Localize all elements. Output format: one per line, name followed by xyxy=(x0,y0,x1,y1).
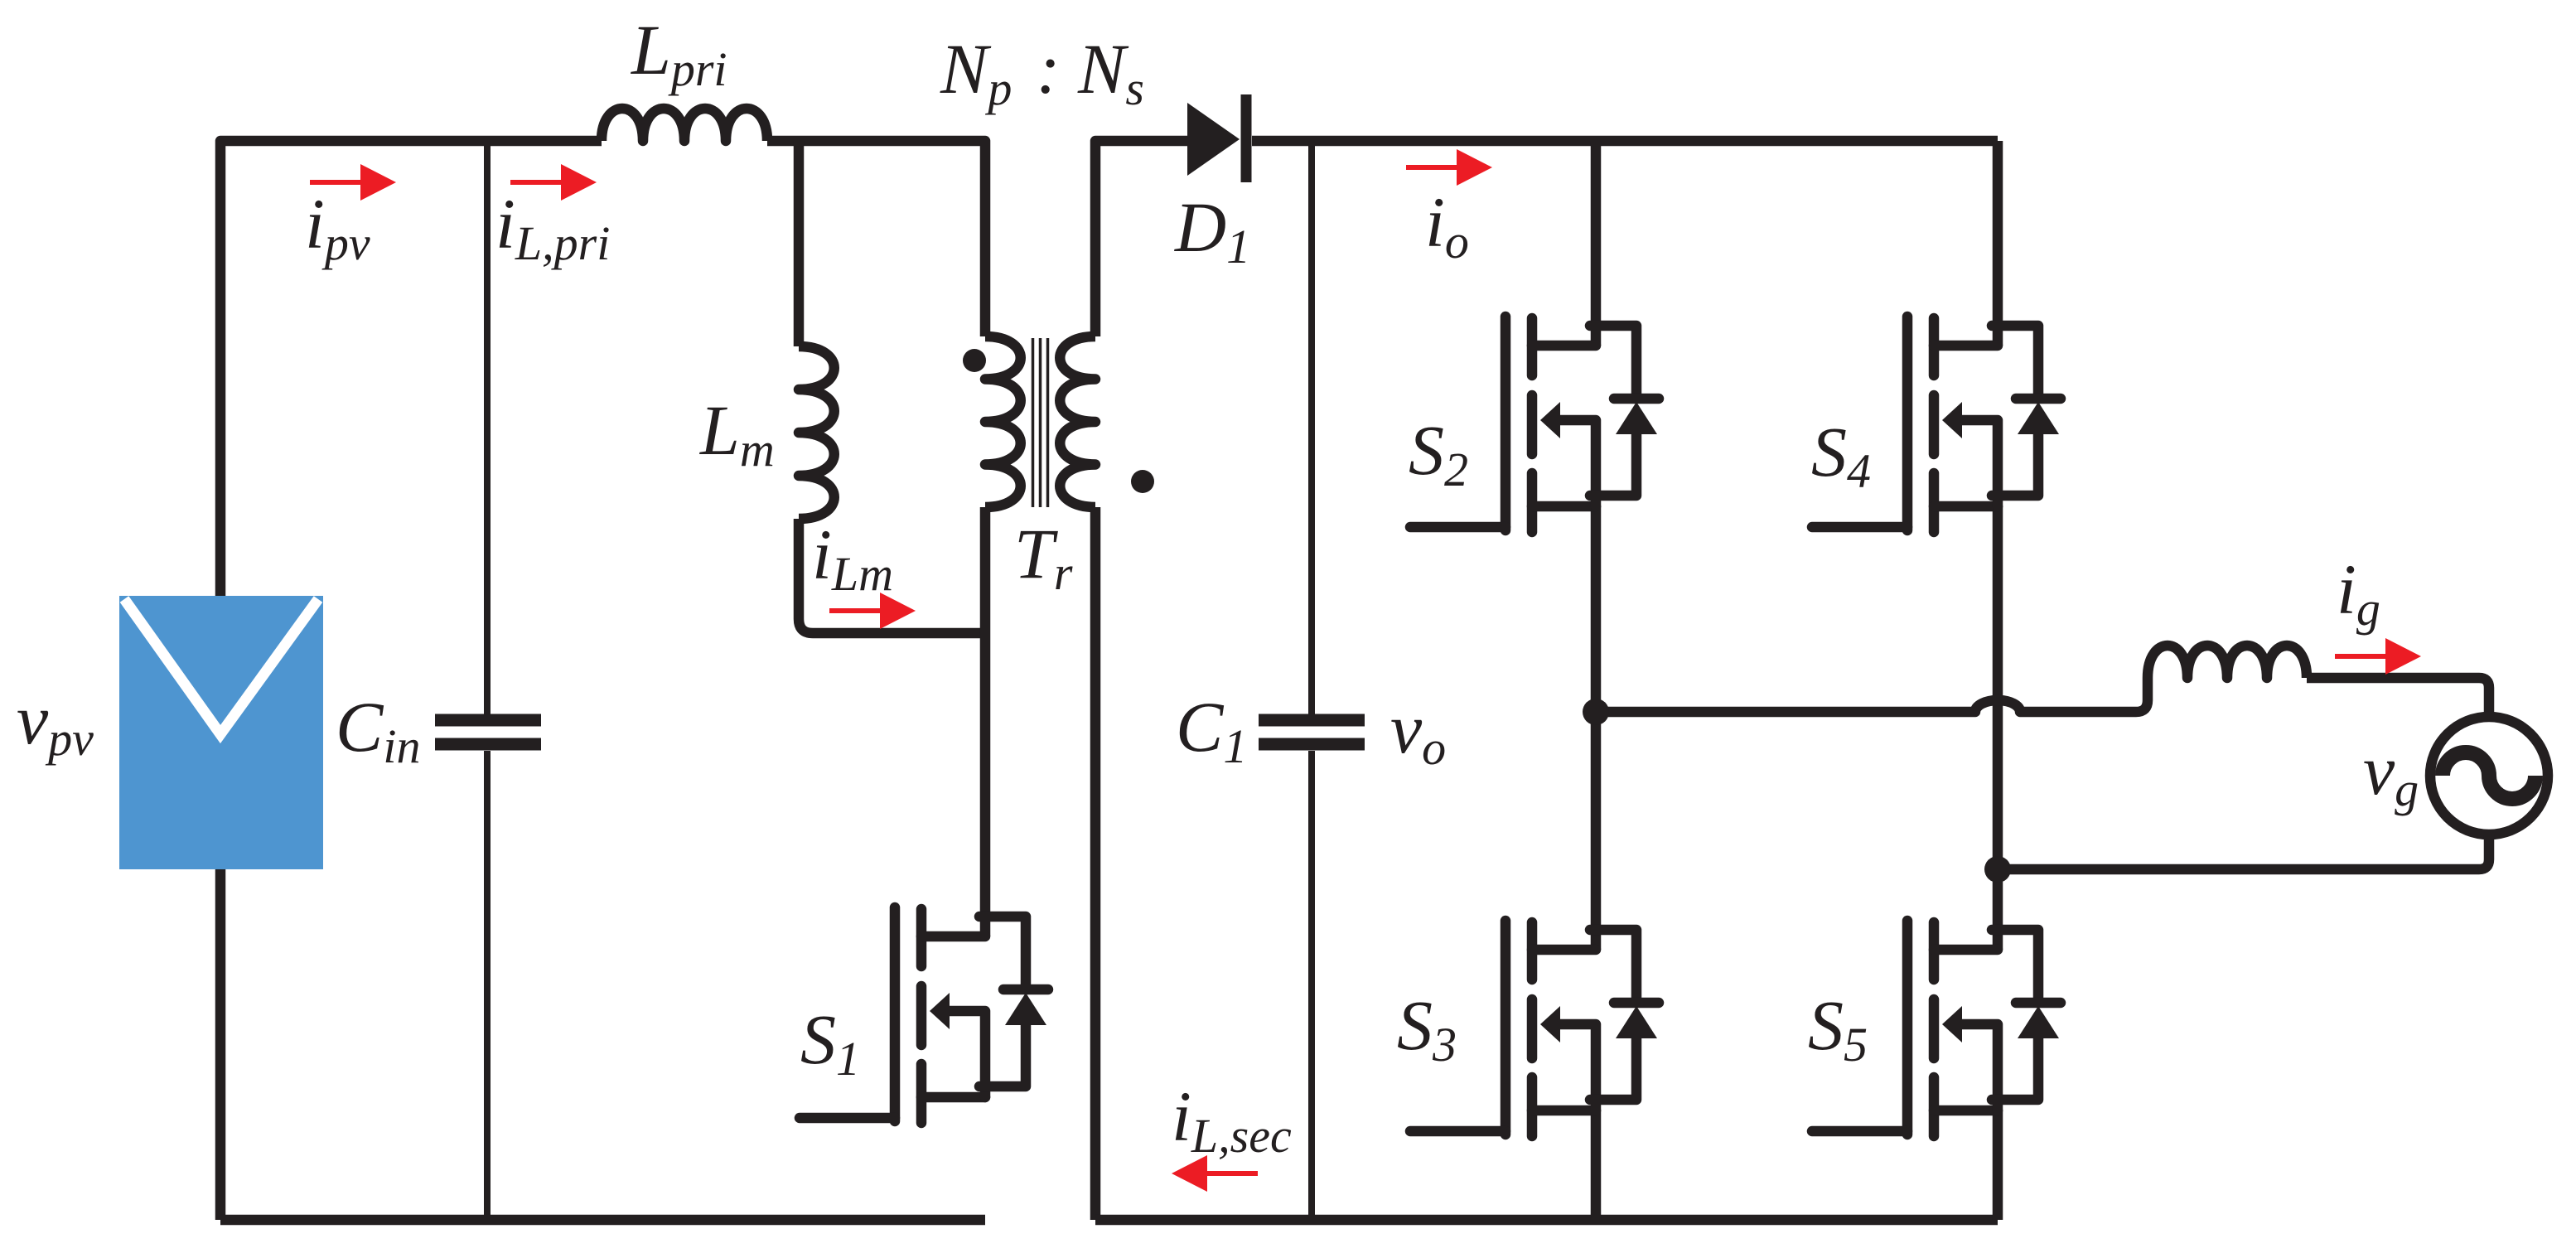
arrow i_pv xyxy=(310,164,396,201)
svg-text:Lm: Lm xyxy=(698,390,775,477)
arrow i_L,pri xyxy=(510,164,597,201)
svg-text:S5: S5 xyxy=(1808,985,1868,1072)
transformer Tr core xyxy=(1033,338,1048,507)
arrow i_o xyxy=(1406,149,1492,186)
svg-text:D1: D1 xyxy=(1174,187,1250,273)
svg-text:C1: C1 xyxy=(1176,687,1247,773)
node: right leg midpoint junction xyxy=(1984,856,2011,883)
arrow i_L,sec xyxy=(1172,1155,1258,1192)
node: transformer secondary dot xyxy=(1131,470,1154,493)
wire: C1 branch bottom xyxy=(1308,751,1315,1220)
svg-text:S4: S4 xyxy=(1811,412,1871,498)
wire: secondary winding top to D1 anode xyxy=(1095,141,1187,336)
AC source vg xyxy=(2430,717,2548,835)
wire: bottom rail primary side xyxy=(220,1215,985,1226)
node: transformer primary dot xyxy=(963,349,986,372)
wire: bottom rail secondary side xyxy=(1095,1215,1998,1226)
wire: S2 drain from top rail xyxy=(1591,141,1602,346)
transformer Tr primary winding xyxy=(985,336,1021,507)
inductor Lm xyxy=(799,346,834,519)
svg-text:S1: S1 xyxy=(800,999,860,1086)
transistor S2 xyxy=(1410,317,1659,532)
svg-text:Tr: Tr xyxy=(1014,514,1073,600)
diode D1 xyxy=(1187,94,1246,182)
capacitor C1 xyxy=(1259,720,1365,744)
wire: left loop from PV top to Lpri xyxy=(220,141,602,596)
wire: left-leg midpoint to L1 with hop over right leg xyxy=(1596,678,2148,712)
transformer Tr secondary winding xyxy=(1060,336,1095,507)
wire: S5 source to bottom rail xyxy=(1993,1110,2003,1220)
svg-text:io: io xyxy=(1425,182,1469,268)
wire: S3 source to bottom rail xyxy=(1591,1110,1602,1220)
transistor S1 xyxy=(800,907,1048,1123)
svg-text:vg: vg xyxy=(2363,730,2419,816)
svg-text:iL,sec: iL,sec xyxy=(1172,1076,1292,1163)
wire: L1 to vg top xyxy=(2307,678,2489,717)
svg-text:vpv: vpv xyxy=(17,680,94,766)
svg-text:ig: ig xyxy=(2337,549,2380,636)
wire: Cin branch top xyxy=(484,141,491,714)
wire: PV bottom to bottom rail xyxy=(215,868,226,1220)
wire: Lm branch top xyxy=(794,141,805,346)
transistor S4 xyxy=(1812,317,2061,532)
svg-text:Np : Ns: Np : Ns xyxy=(940,29,1144,115)
wire: S4 drain from top rail corner xyxy=(1993,141,2003,346)
wire: primary winding bottom down to S1 drain xyxy=(980,507,991,936)
wire: Lm bottom to primary winding bottom xyxy=(799,519,985,633)
svg-text:vo: vo xyxy=(1390,689,1446,775)
wire: secondary winding bottom down to bottom rail xyxy=(1090,507,1101,1220)
svg-text:S2: S2 xyxy=(1409,410,1468,496)
svg-text:Lpri: Lpri xyxy=(630,10,727,96)
arrow i_g xyxy=(2335,638,2421,675)
wire: vg bottom to right-leg midpoint node xyxy=(1998,835,2489,869)
node: left leg midpoint junction xyxy=(1583,699,1609,725)
svg-text:S3: S3 xyxy=(1397,985,1457,1072)
wire: Lpri to transformer primary top corner xyxy=(767,141,985,336)
arrow i_Lm xyxy=(829,593,916,629)
transistor S3 xyxy=(1410,921,1659,1136)
wire: S4 source down through crossover to S5 drain xyxy=(1993,506,2003,950)
inductor Lpri xyxy=(602,109,767,141)
wire: Cin branch bottom xyxy=(484,751,491,1220)
svg-text:iLm: iLm xyxy=(812,515,893,601)
svg-text:Cin: Cin xyxy=(336,687,421,773)
svg-text:iL,pri: iL,pri xyxy=(495,184,610,270)
wire: C1 branch top xyxy=(1308,141,1315,714)
capacitor Cin xyxy=(435,720,541,744)
solar panel PV xyxy=(119,596,323,869)
wire: D1 cathode to S4 top corner xyxy=(1252,136,1998,147)
wire: S2 source to S3 drain (left leg mid) xyxy=(1591,506,1602,950)
inductor L1 xyxy=(2148,646,2307,678)
transistor S5 xyxy=(1812,921,2061,1136)
